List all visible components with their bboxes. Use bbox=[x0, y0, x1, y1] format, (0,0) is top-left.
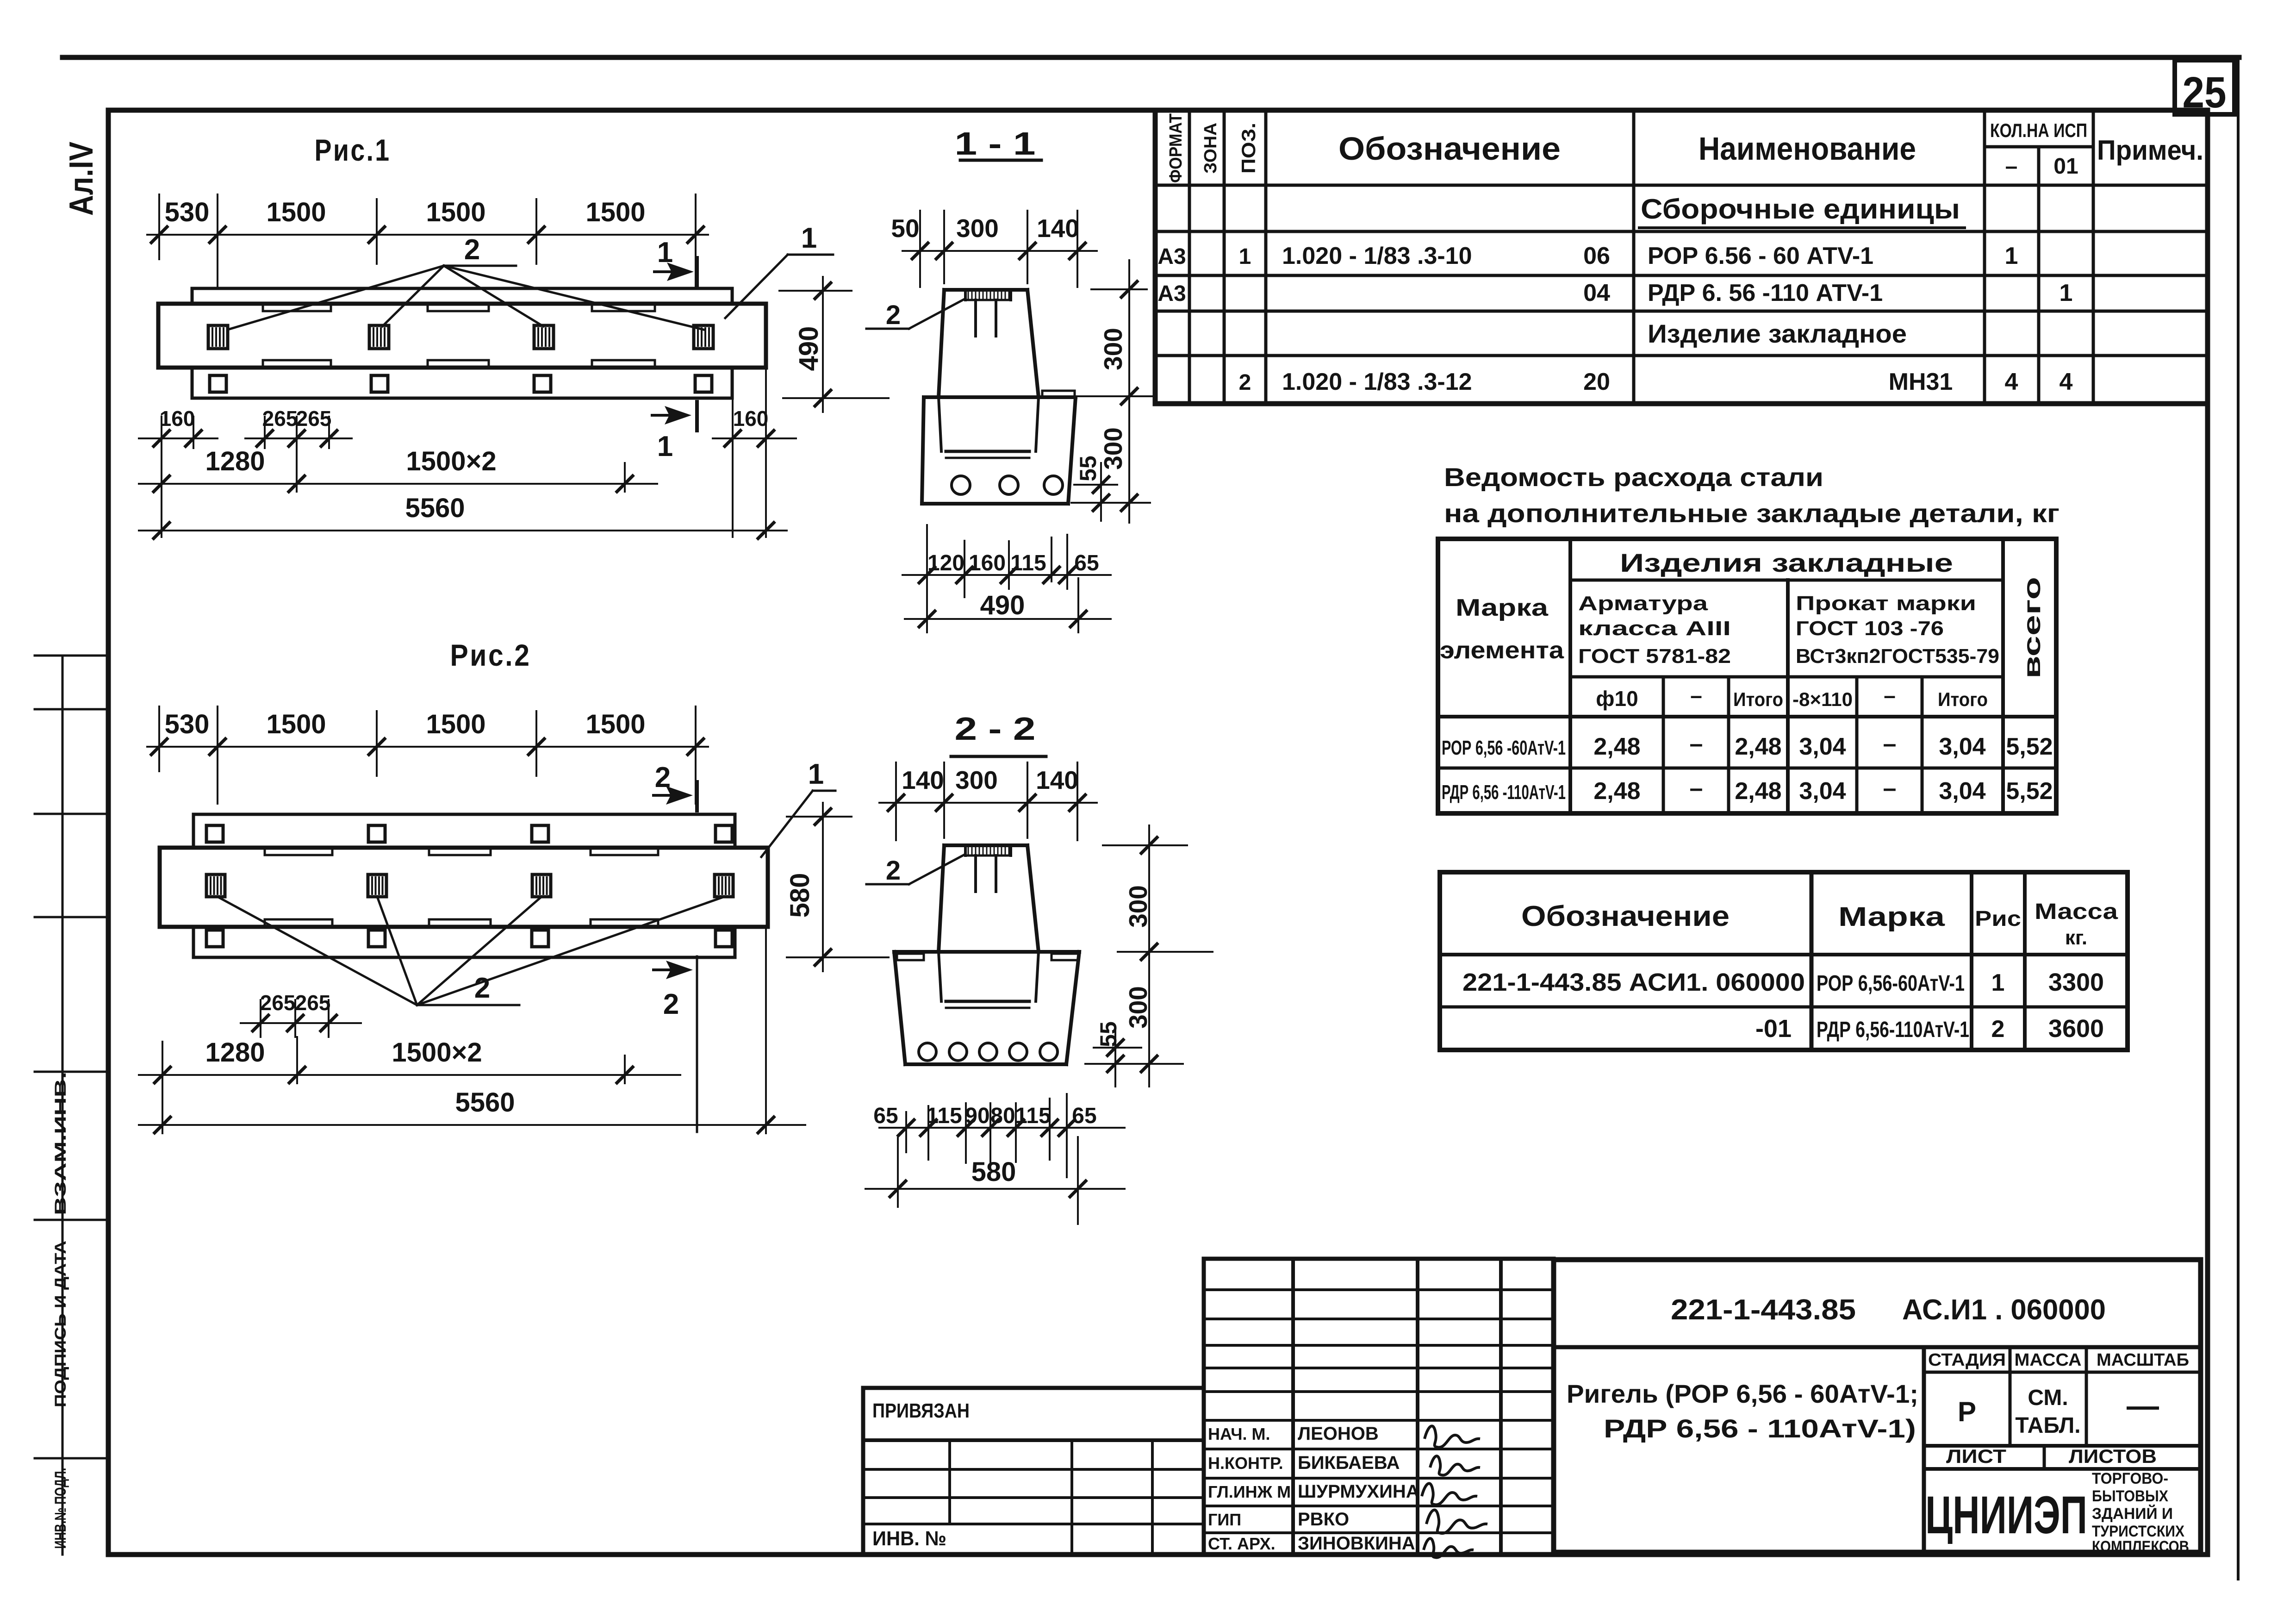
svg-text:Изделие закладное: Изделие закладное bbox=[1648, 319, 1907, 348]
steel table Прокат header bbox=[1796, 592, 1999, 668]
svg-text:1.020 - 1/83 .3-10: 1.020 - 1/83 .3-10 bbox=[1282, 243, 1472, 269]
svg-text:1500: 1500 bbox=[585, 197, 645, 227]
svg-text:530: 530 bbox=[165, 709, 210, 739]
svg-text:490: 490 bbox=[980, 590, 1025, 620]
steel table Арматура header bbox=[1578, 592, 1731, 668]
svg-text:2: 2 bbox=[464, 234, 480, 266]
svg-text:80: 80 bbox=[990, 1104, 1015, 1128]
svg-text:РОР 6.56 - 60 АТV-1: РОР 6.56 - 60 АТV-1 bbox=[1648, 243, 1873, 269]
svg-text:Итого: Итого bbox=[1938, 688, 1988, 710]
Рис.1 bottom dims 160/265/265/160 bbox=[139, 368, 796, 537]
svg-text:–: – bbox=[1883, 731, 1897, 757]
sheet right outer line bbox=[2237, 60, 2240, 1579]
Рис.1 slab openings (squares) bbox=[210, 375, 712, 392]
steel table data row 2 bbox=[1442, 775, 2053, 805]
specification header ФОРМАТ bbox=[1166, 113, 1186, 183]
svg-text:Р: Р bbox=[1958, 1396, 1976, 1427]
svg-text:РДР 6,56 -110АтV-1: РДР 6,56 -110АтV-1 bbox=[1442, 781, 1566, 804]
svg-text:300: 300 bbox=[1099, 328, 1127, 370]
title block document numbers bbox=[1671, 1294, 2106, 1326]
svg-text:2 - 2: 2 - 2 bbox=[955, 711, 1036, 747]
specification header Обозначение bbox=[1338, 131, 1561, 167]
svg-text:115: 115 bbox=[926, 1104, 962, 1128]
svg-text:элемента: элемента bbox=[1440, 637, 1564, 664]
Рис.2 dim line 1280/1500x2 bbox=[139, 1037, 680, 1083]
svg-text:4: 4 bbox=[2005, 369, 2018, 395]
title block institute small text bbox=[2092, 1470, 2189, 1555]
steel table header Изделия закладные bbox=[1620, 548, 1953, 577]
svg-text:Масса: Масса bbox=[2035, 899, 2118, 924]
svg-text:1500: 1500 bbox=[585, 709, 645, 739]
svg-text:ШУРМУХИНА: ШУРМУХИНА bbox=[1298, 1481, 1419, 1502]
specification table grid bbox=[1155, 110, 2208, 404]
svg-text:160: 160 bbox=[733, 406, 769, 431]
marks table grid bbox=[1440, 872, 2128, 1050]
svg-text:РВКО: РВКО bbox=[1298, 1509, 1349, 1530]
Рис.1 embedded plates МН31 (hatched) bbox=[208, 325, 713, 349]
svg-text:265: 265 bbox=[260, 991, 296, 1015]
Рис.1 dim line 5560 bbox=[139, 523, 787, 538]
title block responsibility rows bbox=[1208, 1424, 1419, 1554]
svg-text:-01: -01 bbox=[1755, 1015, 1792, 1043]
marks table row 2 bbox=[1755, 1015, 2104, 1043]
svg-text:2: 2 bbox=[663, 988, 679, 1020]
Рис.1 right dimension 490 bbox=[779, 277, 889, 412]
left margin vertical label ИНВ.№ ПОДЛ. bbox=[52, 1468, 69, 1549]
steel table grid bbox=[1438, 539, 2056, 813]
Рис.1 dim labels bbox=[165, 197, 646, 227]
svg-text:160: 160 bbox=[160, 406, 195, 431]
svg-text:530: 530 bbox=[165, 197, 210, 227]
Рис.1 label 5560 bbox=[405, 493, 465, 523]
svg-text:3,04: 3,04 bbox=[1799, 778, 1846, 805]
Рис.2 right dimension 580 bbox=[787, 803, 889, 971]
svg-text:5560: 5560 bbox=[455, 1087, 515, 1118]
section 1-1 leader 2 bbox=[866, 299, 964, 329]
svg-text:КОМПЛЕКСОВ: КОМПЛЕКСОВ bbox=[2092, 1538, 2189, 1555]
svg-text:1: 1 bbox=[657, 431, 673, 462]
svg-text:1500: 1500 bbox=[426, 197, 485, 227]
Рис.2 label 580 bbox=[785, 873, 815, 918]
svg-text:РОР 6,56 -60АтV-1: РОР 6,56 -60АтV-1 bbox=[1442, 737, 1566, 759]
specification header ПОЗ. bbox=[1238, 123, 1259, 174]
svg-text:140: 140 bbox=[1037, 214, 1079, 243]
Рис.1 dim line 1280/1500x2 bbox=[139, 463, 657, 492]
Рис.1 slab plate outline bbox=[192, 288, 732, 398]
svg-text:–: – bbox=[1690, 731, 1703, 757]
album label Ал.IV bbox=[63, 142, 100, 216]
steel consumption table title bbox=[1444, 462, 1823, 492]
svg-text:1: 1 bbox=[1991, 969, 2005, 996]
svg-text:2,48: 2,48 bbox=[1593, 733, 1640, 760]
svg-text:Итого: Итого bbox=[1733, 688, 1783, 710]
svg-text:ИНВ.№ ПОДЛ.: ИНВ.№ ПОДЛ. bbox=[52, 1468, 69, 1549]
svg-text:140: 140 bbox=[1036, 766, 1078, 794]
svg-text:3,04: 3,04 bbox=[1799, 733, 1846, 760]
svg-text:Рис.1: Рис.1 bbox=[315, 133, 391, 167]
svg-text:2: 2 bbox=[1991, 1016, 2005, 1043]
left margin vertical label ПОДПИСЬ И ДАТА bbox=[52, 1241, 69, 1407]
svg-text:ГОСТ 5781-82: ГОСТ 5781-82 bbox=[1578, 645, 1731, 668]
Рис.2 embedded plates МН31 (hatched) bbox=[206, 874, 733, 897]
svg-text:А3: А3 bbox=[1157, 244, 1186, 269]
Рис.1 label 490 bbox=[794, 326, 824, 371]
Рис.2 leader label 2 bbox=[474, 972, 490, 1004]
svg-text:1 - 1: 1 - 1 bbox=[955, 125, 1036, 162]
svg-text:3,04: 3,04 bbox=[1939, 778, 1985, 805]
section 1-1 corner notch bbox=[1042, 391, 1075, 397]
title block привязан box bbox=[863, 1388, 1204, 1552]
svg-text:2: 2 bbox=[474, 972, 490, 1004]
section 2-2 bottom dims 65/115/90/80/115/65 bbox=[879, 1094, 1125, 1224]
section 2-2 stirrup bars bbox=[976, 856, 996, 892]
svg-text:Ведомость расхода стали: Ведомость расхода стали bbox=[1444, 462, 1823, 492]
svg-text:ТОРГОВО-: ТОРГОВО- bbox=[2092, 1470, 2168, 1487]
svg-text:РДР 6. 56 -110 АТV-1: РДР 6. 56 -110 АТV-1 bbox=[1648, 280, 1883, 306]
svg-text:ВЗАМ.ИНВ.: ВЗАМ.ИНВ. bbox=[52, 1072, 69, 1215]
section 1-1 top dim labels bbox=[891, 214, 1079, 243]
svg-text:ПРИВЯЗАН: ПРИВЯЗАН bbox=[872, 1399, 970, 1422]
svg-text:490: 490 bbox=[794, 326, 824, 371]
svg-text:ЛИСТОВ: ЛИСТОВ bbox=[2069, 1445, 2157, 1467]
svg-text:1500: 1500 bbox=[426, 709, 485, 739]
svg-text:5560: 5560 bbox=[405, 493, 465, 523]
svg-text:1: 1 bbox=[808, 758, 824, 790]
left margin inner line bbox=[62, 656, 64, 1555]
svg-text:115: 115 bbox=[1010, 551, 1046, 575]
specification row 1 bbox=[1157, 243, 2018, 269]
svg-text:Обозначение: Обозначение bbox=[1338, 131, 1561, 167]
svg-text:-8×110: -8×110 bbox=[1792, 688, 1853, 710]
svg-text:265: 265 bbox=[296, 406, 332, 431]
svg-text:СТАДИЯ: СТАДИЯ bbox=[1928, 1350, 2006, 1370]
title block ИНВ.№ text bbox=[872, 1527, 946, 1550]
left margin cell ticks bbox=[35, 656, 108, 1458]
svg-text:ТАБЛ.: ТАБЛ. bbox=[2015, 1413, 2080, 1438]
marks table headers bbox=[1521, 899, 2118, 949]
svg-text:1: 1 bbox=[801, 222, 817, 254]
left margin vertical label ВЗАМ.ИНВ. bbox=[52, 1072, 69, 1215]
svg-text:55: 55 bbox=[1095, 1021, 1121, 1047]
Рис.2 section mark 2 top bbox=[653, 762, 697, 811]
section 2-2 leader 2 bbox=[866, 855, 964, 884]
svg-text:580: 580 bbox=[971, 1157, 1016, 1187]
section 1-1 right dim labels bbox=[1075, 328, 1127, 481]
svg-text:120: 120 bbox=[927, 551, 964, 575]
svg-text:1: 1 bbox=[2060, 280, 2073, 306]
svg-text:на дополнительные закладые д: на дополнительные закладые детали, кг bbox=[1444, 499, 2060, 528]
section 2-2 body outline bbox=[894, 845, 1079, 1064]
svg-text:РДР 6,56-110АтV-1: РДР 6,56-110АтV-1 bbox=[1817, 1018, 1969, 1042]
Рис.2 title bbox=[450, 638, 531, 672]
svg-text:2: 2 bbox=[1239, 370, 1251, 395]
svg-text:1500×2: 1500×2 bbox=[392, 1037, 482, 1068]
svg-text:160: 160 bbox=[969, 551, 1006, 575]
svg-text:5,52: 5,52 bbox=[2006, 733, 2053, 760]
page number box 25 bbox=[2175, 60, 2234, 117]
section 1-1 bottom dims 120/160/115/65 bbox=[902, 525, 1111, 632]
svg-text:Прокат марки: Прокат марки bbox=[1796, 592, 1976, 615]
svg-text:Ригель (РОР 6,56 - 60АтV-1;: Ригель (РОР 6,56 - 60АтV-1; bbox=[1567, 1379, 1918, 1408]
title block main box bbox=[1554, 1260, 2201, 1552]
svg-text:3300: 3300 bbox=[2048, 968, 2104, 996]
svg-text:300: 300 bbox=[1099, 427, 1127, 470]
title block СТАДИЯ МАССА МАСШТАБ bbox=[1928, 1350, 2189, 1370]
section 1-1 stirrup bars bbox=[976, 300, 996, 336]
svg-text:1280: 1280 bbox=[205, 446, 265, 476]
svg-text:2: 2 bbox=[886, 856, 901, 886]
svg-text:ЗОНА: ЗОНА bbox=[1201, 123, 1220, 174]
svg-text:ф10: ф10 bbox=[1596, 687, 1638, 711]
svg-text:2,48: 2,48 bbox=[1593, 778, 1640, 805]
svg-text:2: 2 bbox=[886, 300, 901, 330]
Рис.2 section mark 2 bottom bbox=[653, 956, 697, 1132]
section 1-1 dim 490 bbox=[905, 611, 1111, 627]
title block central grid bbox=[1204, 1259, 1554, 1552]
svg-text:кг.: кг. bbox=[2065, 926, 2087, 949]
svg-text:Рис.2: Рис.2 bbox=[450, 638, 531, 672]
section 1-1 holes (circles) bbox=[952, 476, 1063, 494]
svg-text:2,48: 2,48 bbox=[1735, 733, 1781, 760]
svg-text:МАССА: МАССА bbox=[2015, 1350, 2082, 1370]
section 2-2 corner notches bbox=[897, 954, 1078, 960]
svg-text:ПОДПИСЬ И ДАТА: ПОДПИСЬ И ДАТА bbox=[52, 1241, 69, 1407]
svg-text:ГОСТ 103 -76: ГОСТ 103 -76 bbox=[1796, 617, 1944, 640]
svg-text:01: 01 bbox=[2053, 154, 2078, 179]
section 1-1 top dims 50/300/140 bbox=[902, 211, 1097, 287]
Рис.2 slab openings bottom row bbox=[206, 930, 732, 947]
svg-text:СТ. АРХ.: СТ. АРХ. bbox=[1208, 1534, 1276, 1553]
Рис.2 beam edge notches bbox=[265, 849, 658, 926]
svg-text:—: — bbox=[2127, 1387, 2159, 1424]
svg-text:ФОРМАТ: ФОРМАТ bbox=[1166, 113, 1186, 183]
Рис.2 bottom dims 265/265 bbox=[241, 1000, 361, 1037]
svg-text:1: 1 bbox=[2005, 243, 2018, 269]
svg-text:ПОЗ.: ПОЗ. bbox=[1238, 123, 1259, 174]
svg-text:221-1-443.85 АСИ1. 060000: 221-1-443.85 АСИ1. 060000 bbox=[1462, 968, 1805, 996]
Рис.2 leader 2 fan bbox=[218, 897, 724, 1005]
section 1-1 body outline bbox=[922, 290, 1076, 504]
svg-text:3,04: 3,04 bbox=[1939, 733, 1985, 760]
svg-text:ЗДАНИЙ И: ЗДАНИЙ И bbox=[2092, 1505, 2173, 1523]
svg-text:1500: 1500 bbox=[266, 709, 326, 739]
title block stage values bbox=[1958, 1386, 2159, 1438]
svg-text:БЫТОВЫХ: БЫТОВЫХ bbox=[2092, 1487, 2168, 1505]
svg-text:всего: всего bbox=[2019, 577, 2046, 679]
Рис.1 top dimension line 530/1500/1500/1500 bbox=[147, 194, 708, 306]
Рис.2 top dimension line 530/1500/1500/1500 bbox=[147, 706, 708, 804]
Рис.2 leader label 1 bbox=[808, 758, 824, 790]
svg-text:Рис: Рис bbox=[1975, 906, 2021, 931]
section 1-1 label 490 bbox=[980, 590, 1025, 620]
specification header ЗОНА bbox=[1201, 123, 1220, 174]
Рис.2 265 labels bbox=[260, 991, 331, 1015]
Рис.2 dim line 5560 bbox=[139, 927, 805, 1133]
svg-text:ЗИНОВКИНА: ЗИНОВКИНА bbox=[1298, 1533, 1415, 1554]
svg-text:Марка: Марка bbox=[1456, 594, 1549, 621]
svg-text:221-1-443.85: 221-1-443.85 bbox=[1671, 1294, 1856, 1326]
steel consumption table title line2 bbox=[1444, 499, 2060, 528]
section 2-2 holes (circles) bbox=[919, 1043, 1058, 1061]
Рис.1 leader 2 fan bbox=[228, 266, 703, 330]
svg-text:5,52: 5,52 bbox=[2006, 778, 2053, 805]
Рис.1 leader label 2 bbox=[464, 234, 480, 266]
svg-text:А3: А3 bbox=[1157, 281, 1186, 306]
title block ЦНИИЭП bbox=[1925, 1486, 2087, 1545]
svg-text:1: 1 bbox=[1239, 244, 1251, 269]
title block название Ригель bbox=[1567, 1379, 1918, 1443]
svg-text:ГИП: ГИП bbox=[1208, 1510, 1241, 1529]
svg-text:65: 65 bbox=[1072, 1104, 1096, 1128]
svg-text:3600: 3600 bbox=[2048, 1015, 2104, 1043]
section 2-2 web inside flange and ledge bbox=[939, 952, 1039, 1008]
svg-text:РОР 6,56-60АтV-1: РОР 6,56-60АтV-1 bbox=[1817, 971, 1965, 996]
specification header КОЛ.НА ИСП bbox=[1990, 119, 2087, 141]
specification row Изделие закладное bbox=[1648, 319, 1907, 348]
svg-text:Изделия закладные: Изделия закладные bbox=[1620, 548, 1953, 577]
section 2-2 leader label 2 bbox=[886, 856, 901, 886]
svg-text:ИНВ. №: ИНВ. № bbox=[872, 1527, 946, 1550]
svg-text:ГЛ.ИНЖ М.: ГЛ.ИНЖ М. bbox=[1208, 1482, 1295, 1501]
specification header dash and 01 bbox=[2005, 154, 2078, 179]
section 1-1 right dims 300/300/55 bbox=[1071, 260, 1153, 523]
Рис.2 label 5560 bbox=[455, 1087, 515, 1118]
svg-text:ВСт3кп2ГОСТ535-79: ВСт3кп2ГОСТ535-79 bbox=[1796, 645, 1999, 668]
svg-text:МАСШТАБ: МАСШТАБ bbox=[2097, 1350, 2189, 1370]
svg-text:1.020 - 1/83 .3-12: 1.020 - 1/83 .3-12 bbox=[1282, 369, 1472, 395]
Рис.1 title bbox=[315, 133, 391, 167]
Рис.1 section mark 1 top bbox=[654, 237, 697, 287]
svg-text:–: – bbox=[1690, 775, 1703, 802]
Рис.2 labels 1280 1500x2 bbox=[205, 1037, 482, 1068]
svg-text:1280: 1280 bbox=[205, 1037, 265, 1068]
svg-text:65: 65 bbox=[873, 1104, 898, 1128]
svg-text:04: 04 bbox=[1583, 280, 1610, 306]
section 1-1 leader label 2 bbox=[886, 300, 901, 330]
specification row 4 bbox=[1239, 369, 2073, 395]
Рис.1 beam outline bbox=[158, 304, 766, 368]
svg-text:Примеч.: Примеч. bbox=[2097, 135, 2203, 166]
Рис.2 slab plate outline bbox=[193, 814, 735, 957]
Рис.1 section mark 1 bottom bbox=[652, 402, 697, 462]
svg-text:50: 50 bbox=[891, 214, 919, 243]
svg-text:65: 65 bbox=[1074, 551, 1099, 575]
section 1-1 bottom dim labels bbox=[927, 551, 1099, 575]
section 2-2 top dims 140/300/140 bbox=[879, 762, 1097, 840]
svg-text:ЦНИИЭП: ЦНИИЭП bbox=[1925, 1486, 2087, 1545]
specification header Наименование bbox=[1699, 131, 1916, 167]
svg-text:СМ.: СМ. bbox=[2028, 1386, 2068, 1410]
section 2-2 top dim labels bbox=[902, 766, 1078, 794]
section 2-2 title bbox=[951, 711, 1046, 756]
svg-text:–: – bbox=[2005, 154, 2018, 179]
svg-text:Сборочные единицы: Сборочные единицы bbox=[1641, 194, 1960, 225]
svg-text:115: 115 bbox=[1015, 1104, 1051, 1128]
section 2-2 bottom dim labels bbox=[873, 1104, 1096, 1128]
svg-text:АС.И1 . 060000: АС.И1 . 060000 bbox=[1902, 1294, 2106, 1326]
svg-text:БИКБАЕВА: БИКБАЕВА bbox=[1298, 1453, 1400, 1473]
svg-text:класса АIII: класса АIII bbox=[1578, 617, 1731, 640]
Рис.1 leader label 1 bbox=[801, 222, 817, 254]
section 2-2 right dim labels bbox=[1095, 885, 1152, 1047]
svg-text:Ал.IV: Ал.IV bbox=[63, 142, 100, 216]
marks table row 1 bbox=[1462, 968, 2104, 996]
svg-text:265: 265 bbox=[262, 406, 298, 431]
Рис.2 leader 1 to slab bbox=[761, 791, 835, 857]
svg-text:2,48: 2,48 bbox=[1735, 778, 1781, 805]
svg-text:–: – bbox=[1884, 683, 1896, 707]
svg-text:–: – bbox=[1690, 683, 1702, 707]
specification row 2 bbox=[1157, 280, 2072, 306]
svg-text:265: 265 bbox=[295, 991, 331, 1015]
specification row Сборочные единицы bbox=[1639, 194, 1965, 228]
svg-text:–: – bbox=[1883, 775, 1897, 802]
title block ПРИВЯЗАН text bbox=[872, 1399, 970, 1422]
Рис.2 dim labels bbox=[165, 709, 646, 739]
Рис.1 labels 1280 1500x2 bbox=[205, 446, 496, 476]
Рис.1 leader 1 to slab bbox=[725, 255, 833, 318]
steel table sub headers bbox=[1596, 683, 1988, 711]
sheet top border line bbox=[62, 55, 2239, 60]
svg-text:300: 300 bbox=[956, 214, 999, 243]
svg-text:ЛЕОНОВ: ЛЕОНОВ bbox=[1298, 1424, 1379, 1444]
svg-text:300: 300 bbox=[1124, 885, 1152, 928]
svg-text:300: 300 bbox=[1124, 986, 1152, 1029]
section 2-2 dim 580 bbox=[865, 1181, 1125, 1197]
title block ЛИСТ ЛИСТОВ bbox=[1946, 1445, 2157, 1467]
section 2-2 label 580 bbox=[971, 1157, 1016, 1187]
svg-text:НАЧ. М.: НАЧ. М. bbox=[1208, 1424, 1270, 1443]
svg-text:55: 55 bbox=[1075, 456, 1101, 481]
svg-text:Обозначение: Обозначение bbox=[1521, 900, 1730, 932]
steel table всего label bbox=[2019, 577, 2046, 679]
svg-text:Наименование: Наименование bbox=[1699, 131, 1916, 167]
section 1-1 web inside flange and ledge bbox=[939, 397, 1039, 458]
svg-text:2: 2 bbox=[655, 762, 671, 793]
svg-text:Марка: Марка bbox=[1838, 902, 1945, 932]
Рис.2 slab openings top row bbox=[206, 825, 732, 842]
section 2-2 rebar hatch strip bbox=[965, 845, 1011, 856]
svg-text:Н.КОНТР.: Н.КОНТР. bbox=[1208, 1454, 1283, 1473]
svg-text:580: 580 bbox=[785, 873, 815, 918]
svg-text:Арматура: Арматура bbox=[1578, 592, 1708, 615]
steel table data row 1 bbox=[1442, 731, 2053, 760]
svg-text:РДР 6,56 - 110АтV-1): РДР 6,56 - 110АтV-1) bbox=[1604, 1414, 1916, 1443]
svg-text:МН31: МН31 bbox=[1889, 369, 1953, 395]
specification header Примеч. bbox=[2097, 135, 2203, 166]
Рис.2 beam outline bbox=[160, 848, 768, 927]
svg-text:1: 1 bbox=[657, 237, 673, 269]
svg-text:300: 300 bbox=[955, 766, 998, 794]
svg-text:1500: 1500 bbox=[266, 197, 326, 227]
steel table МАРКА ЭЛЕМЕНТА bbox=[1440, 594, 1564, 664]
svg-text:140: 140 bbox=[902, 766, 944, 794]
section 1-1 title bbox=[955, 125, 1042, 162]
svg-text:КОЛ.НА ИСП: КОЛ.НА ИСП bbox=[1990, 119, 2087, 141]
svg-text:1500×2: 1500×2 bbox=[406, 446, 496, 476]
svg-text:ЛИСТ: ЛИСТ bbox=[1946, 1445, 2006, 1467]
svg-text:90: 90 bbox=[965, 1104, 989, 1128]
title block signatures bbox=[1422, 1426, 1487, 1557]
svg-text:4: 4 bbox=[2060, 369, 2073, 395]
Рис.1 beam edge notches bbox=[263, 305, 655, 367]
svg-text:20: 20 bbox=[1583, 369, 1610, 395]
svg-text:06: 06 bbox=[1583, 243, 1610, 269]
section 1-1 rebar hatch strip bbox=[965, 290, 1011, 300]
Рис.1 bottom dim labels row1 bbox=[160, 406, 769, 431]
section 2-2 right dims 300/300/55 bbox=[1085, 825, 1213, 1087]
